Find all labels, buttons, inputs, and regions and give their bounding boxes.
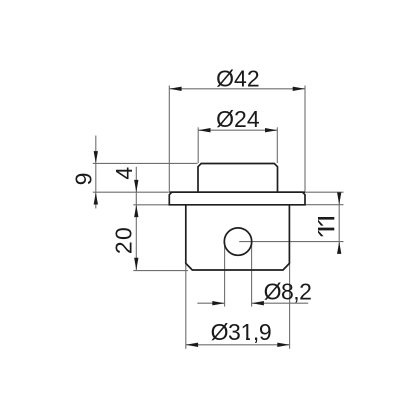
extension line flange bottom right	[305, 204, 344, 206]
extension line hole right	[251, 243, 253, 307]
leader hole center	[239, 241, 343, 243]
arrow Ø24 left	[198, 128, 210, 132]
dimension line Ø42	[169, 88, 305, 90]
arrow 9 bottom	[94, 192, 98, 204]
svg-text:9: 9	[70, 173, 96, 186]
extension line flange bottom left	[133, 204, 169, 206]
extension line body bottom	[133, 270, 188, 272]
extension line Ø31,9 right	[289, 264, 291, 349]
svg-text:Ø24: Ø24	[216, 106, 260, 132]
body outline (Ø31,9)	[186, 205, 290, 270]
hole circle Ø8,2	[224, 228, 251, 255]
arrow Ø8,2 left	[212, 301, 224, 305]
arrow Ø42 left	[169, 87, 181, 91]
label 11	[318, 217, 334, 236]
arrow Ø42 right	[293, 87, 305, 91]
arrow Ø31,9 left	[186, 343, 198, 347]
arrow 9 top	[94, 151, 98, 163]
extension line Ø42 right	[304, 86, 306, 192]
arrow 4/20 shared	[134, 205, 138, 217]
arrow Ø31,9 right	[277, 343, 289, 347]
svg-text:20: 20	[111, 226, 137, 254]
white patches to remove foot serif of digit 1 in Ø31,9	[242, 338, 247, 341]
extension line Ø31,9 left	[185, 264, 187, 349]
flange top edge	[169, 191, 305, 193]
extension line boss top	[93, 162, 198, 164]
svg-text:Ø8,2: Ø8,2	[264, 278, 312, 304]
arrow 11 bottom	[337, 242, 341, 254]
flange outline (Ø42)	[169, 192, 305, 205]
arrow 4 top	[134, 180, 138, 192]
boss outline (Ø24 cylinder)	[198, 164, 278, 193]
svg-text:Ø42: Ø42	[216, 65, 259, 91]
dimension line Ø8,2 right segment	[252, 302, 309, 304]
extension line hole left	[224, 243, 226, 307]
dimension line 4 and 20	[135, 167, 137, 270]
extension line Ø24 left	[197, 127, 199, 163]
dimension line Ø31,9	[186, 344, 290, 346]
svg-text:Ø31,9: Ø31,9	[211, 319, 272, 345]
dimension line Ø8,2 left segment	[197, 302, 224, 304]
dimension line 11	[338, 192, 340, 253]
extension line Ø42 left	[168, 86, 170, 192]
extension line flange top	[93, 191, 169, 193]
extension line Ø24 right	[276, 127, 278, 163]
extension line flange top right	[305, 191, 344, 193]
arrow Ø24 right	[265, 128, 277, 132]
arrow 11 top	[337, 192, 341, 204]
dimension line Ø24	[198, 129, 277, 131]
dimension line 9	[95, 136, 97, 209]
arrow Ø8,2 right	[252, 301, 264, 305]
arrow 20 bottom	[134, 258, 138, 270]
svg-text:4: 4	[111, 167, 137, 180]
